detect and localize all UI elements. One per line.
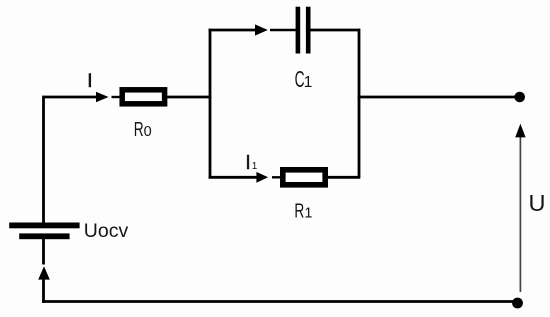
svg-text:U: U (529, 190, 546, 216)
wire R1 to loop right vertical (326, 176, 360, 179)
battery Uocv negative plate (19, 233, 69, 239)
wire left vertical upper (node to battery) (42, 96, 45, 223)
wire stub between arrow and R1 (272, 176, 281, 178)
label I (87, 71, 92, 92)
svg-text:Uocv: Uocv (84, 220, 129, 242)
svg-text:1: 1 (304, 74, 313, 91)
svg-text:I: I (245, 152, 251, 174)
svg-text:I: I (87, 71, 92, 92)
node positive terminal dot (514, 92, 525, 103)
resistor R1 (283, 170, 325, 185)
current arrow on battery branch (upward) (38, 266, 50, 279)
svg-text:0: 0 (144, 124, 152, 140)
wire bottom branch left segment (209, 176, 257, 179)
wire output to positive terminal (358, 96, 516, 99)
svg-text:1: 1 (304, 206, 312, 222)
wire bottom return (42, 300, 514, 303)
resistor R0 (122, 90, 164, 104)
label R0 (134, 118, 152, 141)
current arrow on capacitor branch (255, 24, 268, 35)
wire parallel-loop right vertical (358, 29, 361, 179)
current arrow I1 on R1 branch (256, 172, 268, 183)
voltage arrow U line (519, 137, 521, 292)
label U (529, 190, 546, 216)
label C1 (295, 66, 313, 92)
wire top branch left segment (209, 29, 256, 32)
label I1 (245, 152, 258, 174)
wire battery to current arrow gap (42, 239, 45, 265)
node negative terminal dot (512, 298, 523, 309)
label R1 (294, 200, 312, 223)
current arrow I on main wire (96, 92, 109, 102)
capacitor C1 (296, 7, 311, 54)
wire arrow to capacitor left plate (270, 29, 296, 31)
svg-text:R: R (134, 118, 144, 141)
svg-text:1: 1 (252, 161, 258, 172)
label Uocv (84, 220, 129, 242)
voltage arrow U head (515, 124, 525, 138)
wire top-left horizontal from battery branch to current arrow (44, 96, 97, 99)
wire stub between arrow and R0 (112, 96, 121, 98)
wire parallel-loop left vertical (209, 29, 212, 179)
svg-text:R: R (294, 200, 304, 223)
battery Uocv positive plate (9, 223, 79, 229)
wire R0 to parallel junction (166, 96, 211, 99)
wire arrow to bottom return (42, 279, 45, 303)
wire capacitor right plate to loop right vertical (311, 29, 361, 32)
